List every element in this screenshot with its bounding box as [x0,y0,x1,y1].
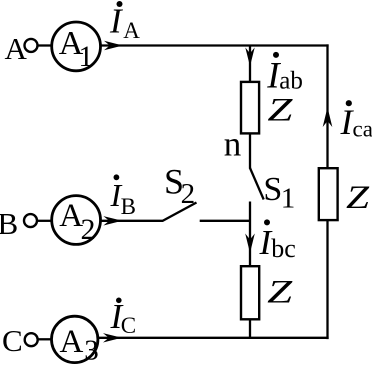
svg-text:2: 2 [181,178,196,210]
svg-text:3: 3 [84,335,99,365]
svg-text:C: C [121,313,136,338]
wire ab branch from top wire [249,46,251,83]
ammeter A2 [52,196,101,246]
svg-text:S: S [263,171,282,208]
switch S1 blade [250,168,264,200]
label İB [110,174,136,219]
resistor Z (bc branch) [241,266,259,319]
svg-text:C: C [2,323,23,358]
wire right vertical upper (corner to Z ca) [326,44,328,168]
wire top (A row to top-right corner) [100,44,329,46]
arrow current IA [104,41,123,50]
svg-text:bc: bc [271,234,296,263]
svg-text:ab: ab [279,68,303,95]
svg-text:B: B [121,194,136,219]
arrow current Iab (down) [245,48,254,67]
terminal B [24,214,37,227]
label İA [109,1,140,43]
label İca [340,100,372,142]
terminal A [25,39,38,52]
arrow current Ibc (down) [245,234,255,254]
svg-text:1: 1 [78,40,93,73]
svg-text:Z: Z [267,92,293,128]
ammeter A1 [52,22,101,73]
resistor Z (ab branch) [241,82,259,133]
svg-text:A: A [123,18,140,43]
resistor Z (ca branch) [319,168,338,220]
svg-text:Z: Z [267,274,293,310]
arrow current Ica (up) [323,107,333,127]
wire S2 to bc node [200,220,251,222]
wire switch S1 to Z bc [249,202,251,267]
arrow current IC [103,333,122,342]
wire terminal C to ammeter A3 [38,338,52,340]
wire Z bc to bottom wire [249,319,251,338]
label İbc [259,219,296,263]
svg-text:Z: Z [346,180,370,216]
label İC [110,297,137,338]
wire terminal B to ammeter A2 [37,220,52,222]
svg-text:ca: ca [353,116,372,141]
label S1 [263,171,295,215]
wire bottom (C row to bottom-right corner) [98,337,329,339]
arrow current IB [103,216,122,225]
wire Z ab to switch S1 [249,134,251,169]
svg-text:A: A [60,324,84,360]
svg-text:B: B [0,206,18,241]
label İab [266,52,303,96]
svg-text:1: 1 [281,183,296,215]
wire B row to switch S2 [100,220,163,222]
ammeter A3 [51,316,98,365]
wire terminal A to ammeter A1 [38,44,53,46]
svg-text:n: n [224,125,242,164]
switch S2 blade [163,203,197,221]
label S2 [164,162,195,210]
wire right vertical lower (Z ca to bottom corner) [326,220,328,339]
svg-text:2: 2 [81,213,96,246]
terminal C [25,333,38,346]
